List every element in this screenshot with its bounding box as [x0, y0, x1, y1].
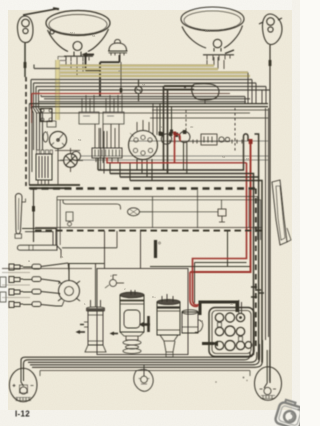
terminal strip ticks	[168, 141, 230, 143]
connector ticks on right bundle	[251, 287, 264, 297]
rear body line	[40, 370, 250, 372]
horn	[108, 39, 128, 55]
wire loop under dash	[63, 200, 121, 210]
spark plugs with wires	[9, 263, 68, 308]
pulley ground arrow	[112, 333, 118, 335]
yellow bus wires	[60, 66, 250, 77]
license plate light	[134, 365, 153, 391]
yellow bus dark edges	[60, 65, 250, 77]
left small boxes at edge	[0, 277, 6, 302]
verticals from body line to engine box	[105, 231, 141, 268]
verticals under ignition switch	[137, 159, 152, 181]
plug wires joining distributor	[59, 263, 70, 306]
gray bus wires upper with left corner drops	[31, 65, 270, 102]
turn signal lever contact lines	[22, 229, 56, 246]
right taillight	[255, 350, 282, 400]
right semaphore	[259, 14, 282, 45]
antenna black bar	[154, 240, 157, 258]
vertical wire below junction	[33, 188, 35, 242]
fuse-bulb component	[135, 80, 142, 101]
wires above ignition switch dashed	[137, 120, 149, 131]
left headlight	[46, 11, 110, 63]
turn signal stalk column	[15, 194, 26, 239]
speedometer circle	[49, 131, 66, 184]
switch box with X top-left	[41, 109, 53, 122]
dash-dot body line full width	[35, 227, 262, 229]
left taillight	[9, 368, 37, 402]
engine compartment box	[2, 268, 92, 270]
wire from lighting switch up	[55, 150, 80, 152]
full width double bus	[29, 104, 268, 107]
black bar left of generator	[147, 316, 150, 332]
coil ground arrow	[78, 331, 85, 333]
starter solenoid	[182, 310, 203, 333]
horn wire from column down	[60, 254, 62, 258]
interior bulb right of box corner	[66, 212, 73, 226]
black arrow into fusebox	[202, 342, 214, 345]
dimmer relay oval	[164, 84, 219, 104]
yellow vertical band	[56, 60, 60, 120]
long wire in lower box	[152, 211, 218, 213]
dashboard box verticals	[57, 197, 60, 249]
dashed left wire	[25, 77, 27, 186]
eBay camera watermark	[274, 398, 306, 426]
second switch circle with caps	[175, 130, 191, 143]
generator black arrow	[141, 323, 150, 326]
thick wire down from headlight bulb	[86, 56, 101, 70]
connector rect above speedo	[47, 121, 56, 127]
right bus drops	[245, 73, 266, 104]
oil pressure sender	[105, 275, 124, 288]
small circle left of fuse strip	[71, 151, 80, 160]
steering column bar	[17, 245, 61, 254]
stray specks near right taillight	[243, 377, 245, 379]
thin lines under harness	[57, 197, 258, 241]
engine area top double line	[195, 262, 247, 264]
small switch circle right of ignition	[160, 132, 173, 144]
ignition coil	[80, 264, 106, 352]
wiper area verticals	[153, 104, 157, 135]
brake light switch oval	[128, 208, 153, 216]
spark plug area border	[2, 273, 30, 298]
fuse terminal box	[209, 308, 254, 357]
wiper switch rect	[201, 134, 230, 145]
wire semaphore R down (long, to right taillight)	[269, 45, 271, 383]
starter motor	[157, 294, 180, 357]
lighting switch X circle	[58, 148, 83, 172]
wire semaphore L down	[24, 43, 26, 77]
thick battery cable	[200, 302, 237, 315]
verticals under dimmer relay	[164, 86, 168, 174]
thick double line under fuse box	[29, 185, 80, 188]
heavy dashed harness line	[30, 187, 255, 189]
distributor	[58, 264, 104, 302]
wires into fusebox top	[239, 300, 242, 313]
black mid bundle horizontals	[98, 134, 262, 363]
generator	[120, 290, 144, 354]
left fuse box	[36, 150, 53, 184]
dotted vertical in right box	[234, 108, 236, 152]
right headlight	[181, 7, 244, 61]
verticals under small switches	[183, 143, 185, 171]
left corner vertical bundle to fusebox	[31, 95, 43, 150]
small component in lower box right	[218, 209, 226, 222]
dash bulb oval	[43, 132, 48, 142]
door pillar switch right	[272, 180, 291, 245]
red bus wire left	[32, 94, 120, 124]
ground arrow at left headlight	[85, 54, 94, 56]
instrument cluster two rects	[79, 94, 124, 173]
right bundle lower verticals	[266, 108, 269, 340]
horn wire thick	[100, 55, 120, 96]
red wire network	[107, 134, 251, 306]
red cap marks	[249, 139, 253, 144]
bottom harness bundle	[21, 340, 263, 368]
horizontal mid lines	[80, 155, 268, 157]
ignition starter switch big circle	[129, 131, 158, 160]
left semaphore turn signal	[17, 8, 59, 42]
right headlight ground tick	[225, 50, 234, 54]
fuse strip center	[92, 124, 122, 163]
